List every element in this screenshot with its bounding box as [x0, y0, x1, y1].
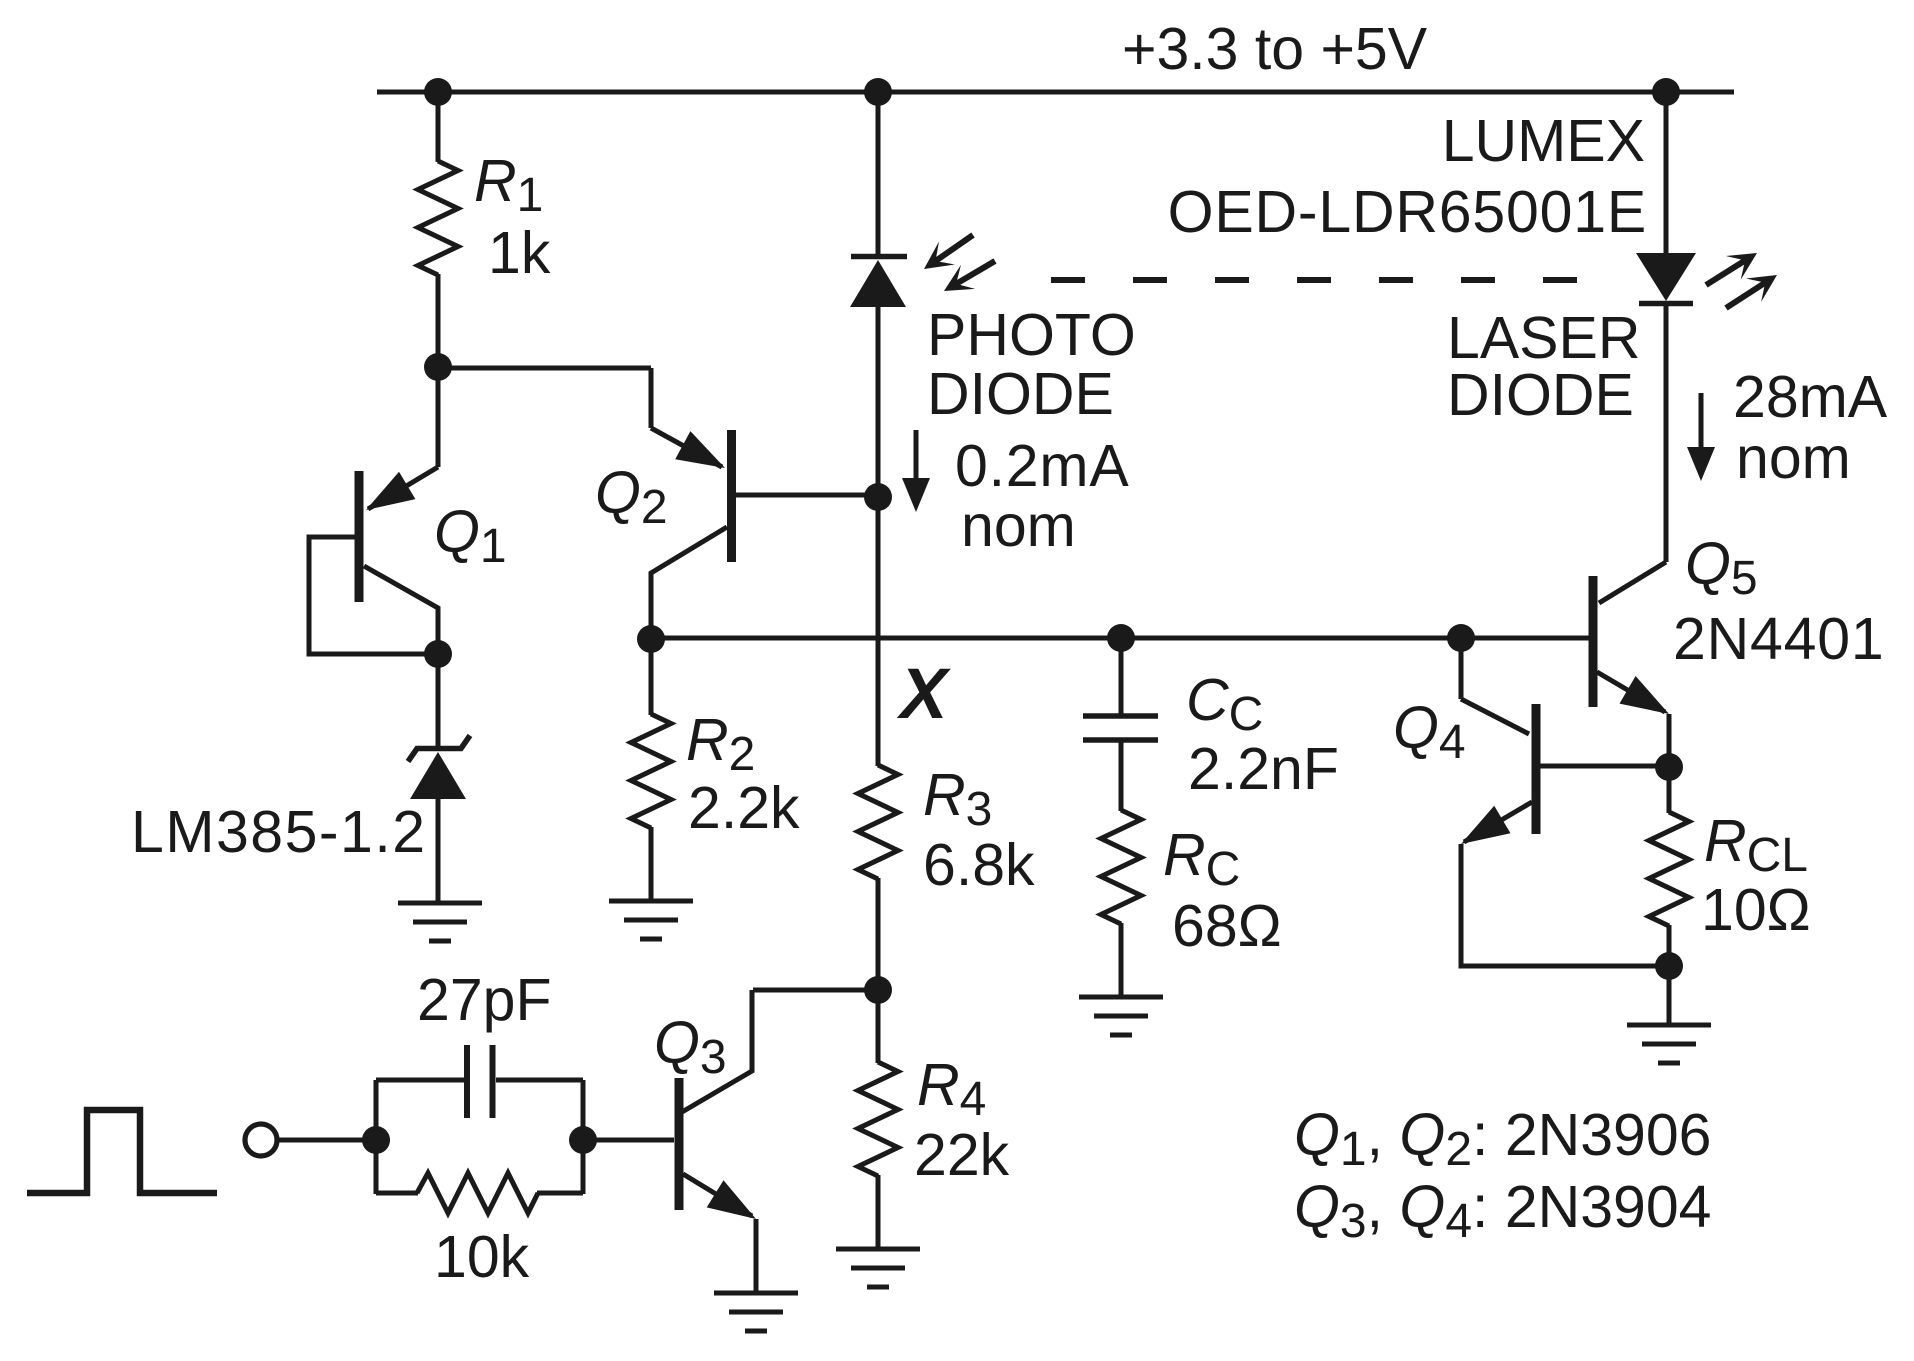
node dot Q2 collector on node X line — [637, 625, 665, 653]
node X wire — [651, 636, 1589, 641]
wire Cc to Rc — [1119, 740, 1124, 811]
wire R2 to ground — [649, 827, 654, 901]
wire box top left — [376, 1078, 464, 1083]
wire R4 to ground — [876, 1175, 881, 1249]
svg-text:RC: RC — [1163, 822, 1240, 896]
svg-text:Q1: Q1 — [434, 499, 507, 573]
node dot Q5 emitter/Q4 collector/RCL — [1655, 753, 1683, 781]
photodiode light arrow 1 — [924, 235, 973, 269]
svg-text:+3.3 to +5V: +3.3 to +5V — [1122, 16, 1428, 82]
label RCL — [1704, 808, 1808, 882]
transistor Q1 base loop wire — [309, 537, 438, 654]
svg-text:2.2nF: 2.2nF — [1188, 736, 1339, 802]
svg-text:R2: R2 — [686, 707, 755, 781]
junction dot Q2 base/photodiode — [864, 483, 892, 511]
wire node X to R2 — [649, 639, 654, 715]
transistor Q1 collector wire — [364, 566, 438, 655]
wire Q4 emitter to RCL bottom — [1461, 844, 1669, 966]
label LM385-1.2 — [131, 799, 427, 865]
svg-text:PHOTO: PHOTO — [927, 302, 1136, 368]
svg-text:R3: R3 — [923, 762, 992, 836]
label R1 — [474, 148, 543, 222]
node dot Q1 collector/zener — [424, 640, 452, 668]
svg-text:2.2k: 2.2k — [688, 775, 800, 841]
capacitor 27pF plates — [467, 1045, 493, 1118]
label Q5 — [1685, 531, 1758, 605]
transistor Q4 collector wire — [1540, 764, 1669, 769]
transistor Q2 emitter wire — [651, 368, 722, 467]
current arrow 28mA — [1687, 393, 1715, 481]
zener triangle — [410, 752, 466, 799]
wire photodiode down through node X — [876, 307, 881, 766]
ground below RCL — [1627, 1025, 1711, 1063]
label 68ohm — [1172, 893, 1282, 959]
transistor Q5 emitter wire — [1597, 672, 1665, 712]
label DIODE (laser) — [1447, 362, 1634, 428]
wire RCL to node — [1667, 925, 1672, 966]
svg-text:nom: nom — [961, 493, 1076, 559]
svg-text:1k: 1k — [488, 220, 551, 286]
label R2 — [686, 707, 755, 781]
label OED-LDR65001E — [1168, 179, 1647, 245]
svg-text:OED-LDR65001E: OED-LDR65001E — [1168, 179, 1647, 245]
svg-text:22k: 22k — [914, 1122, 1010, 1188]
transistor Q4 bar — [1532, 704, 1541, 834]
svg-text:DIODE: DIODE — [1447, 362, 1634, 428]
RC box right wire — [581, 1080, 586, 1194]
package dashed line — [1051, 277, 1581, 283]
label 2.2k — [688, 775, 800, 841]
label 22k — [914, 1122, 1010, 1188]
svg-text:10k: 10k — [434, 1224, 530, 1290]
input node dot left — [362, 1126, 390, 1154]
transistor Q5 emitter arrow — [1620, 676, 1670, 714]
ground below R2 — [609, 901, 693, 939]
transistor Q4 emitter arrow — [1461, 806, 1511, 844]
wire box top right — [496, 1078, 583, 1083]
resistor Rc — [1101, 810, 1141, 924]
wire input terminal to node — [279, 1138, 377, 1143]
transistor Q4 emitter wire — [1464, 802, 1532, 842]
junction dot rail/photodiode — [864, 78, 892, 106]
label Q3 — [654, 1010, 727, 1084]
label nom (laser) — [1736, 425, 1851, 491]
label Rc — [1163, 822, 1240, 896]
transistor Q2 bar — [727, 430, 736, 562]
photodiode light arrow 2 — [944, 261, 995, 291]
svg-text:LM385-1.2: LM385-1.2 — [131, 799, 427, 865]
svg-text:Q3, Q4: 2N3904: Q3, Q4: 2N3904 — [1294, 1174, 1712, 1248]
wire Q3 emitter to ground — [754, 1219, 759, 1293]
svg-text:0.2mA: 0.2mA — [955, 433, 1130, 499]
svg-text:Q5: Q5 — [1685, 531, 1758, 605]
laser light arrow 2 — [1726, 275, 1777, 308]
transistor Q2 emitter arrow — [675, 431, 725, 468]
label LASER — [1447, 305, 1640, 371]
wire zener to ground — [436, 797, 441, 903]
resistor R2 — [631, 714, 671, 828]
note Q1 Q2 2N3906 — [1294, 1102, 1712, 1176]
svg-text:27pF: 27pF — [417, 967, 551, 1033]
wire Rc to ground — [1119, 923, 1124, 997]
wire rail to laser diode — [1664, 92, 1669, 254]
transistor Q3 emitter arrow — [707, 1180, 756, 1219]
svg-text:6.8k: 6.8k — [923, 832, 1035, 898]
svg-text:10Ω: 10Ω — [1701, 877, 1811, 943]
laser diode triangle — [1636, 253, 1696, 301]
svg-text:68Ω: 68Ω — [1172, 893, 1282, 959]
transistor Q3 emitter wire — [683, 1174, 752, 1216]
label 10k — [434, 1224, 530, 1290]
laser diode bar — [1639, 301, 1693, 307]
wire node to Q3 collector — [753, 988, 878, 993]
label R3 — [923, 762, 992, 836]
wire node X to Cc — [1119, 638, 1124, 716]
svg-text:Q4: Q4 — [1393, 695, 1466, 769]
wire R3 to node R4 — [876, 878, 881, 991]
label R4 — [917, 1052, 986, 1126]
transistor Q2 base wire — [736, 493, 878, 498]
label 28mA — [1733, 364, 1888, 430]
wire R1 to node — [436, 274, 441, 368]
wire node to Q2 emitter — [438, 366, 651, 371]
svg-text:RCL: RCL — [1704, 808, 1808, 882]
label Cc — [1186, 667, 1263, 741]
transistor Q4 base wire — [1461, 638, 1529, 734]
svg-text:CC: CC — [1186, 667, 1263, 741]
wire box bottom left — [376, 1191, 418, 1196]
transistor Q2 collector wire — [651, 527, 727, 640]
input node dot right — [569, 1126, 597, 1154]
wire RCL top — [1667, 767, 1672, 813]
junction dot rail/laser diode — [1652, 78, 1680, 106]
transistor Q3 collector wire — [682, 990, 752, 1112]
label 1k — [488, 220, 551, 286]
laser light arrow 1 — [1706, 253, 1757, 285]
transistor Q1 emitter wire — [368, 367, 438, 509]
label 6.8k — [923, 832, 1035, 898]
svg-text:2N4401: 2N4401 — [1673, 606, 1884, 672]
input terminal circle — [245, 1124, 277, 1156]
RC box left wire — [374, 1080, 379, 1194]
svg-text:DIODE: DIODE — [927, 361, 1114, 427]
transistor Q5 base wire segment — [1461, 636, 1589, 641]
photodiode cathode bar — [851, 254, 907, 260]
power rail +3.3 to +5V wire — [377, 90, 1734, 95]
photodiode triangle — [850, 260, 906, 307]
svg-text:Q3: Q3 — [654, 1010, 727, 1084]
svg-text:R1: R1 — [474, 148, 543, 222]
node dot Cc on node X line — [1107, 624, 1135, 652]
capacitor Cc plates — [1083, 716, 1158, 740]
svg-text:Q1, Q2: 2N3906: Q1, Q2: 2N3906 — [1294, 1102, 1712, 1176]
resistor R3 — [858, 765, 898, 879]
wire box bottom right — [537, 1191, 583, 1196]
wire rail to photodiode — [876, 92, 881, 256]
ground below Rc — [1079, 997, 1163, 1035]
ground below R4 — [836, 1249, 920, 1287]
wire node to ground — [1667, 966, 1672, 1025]
ground below zener — [398, 903, 482, 941]
label X — [896, 655, 951, 734]
resistor R1 — [418, 161, 458, 275]
note Q3 Q4 2N3904 — [1294, 1174, 1712, 1248]
label nom (photo) — [961, 493, 1076, 559]
label 27pF — [417, 967, 551, 1033]
transistor Q3 bar — [675, 1078, 684, 1210]
ground below Q3 — [714, 1293, 798, 1331]
svg-text:R4: R4 — [917, 1052, 986, 1126]
transistor Q3 base wire — [583, 1138, 674, 1143]
label 10ohm — [1701, 877, 1811, 943]
node dot RCL/Q4 emitter return — [1655, 952, 1683, 980]
wire Q1 to zener — [436, 654, 441, 748]
input pulse waveform — [27, 1110, 217, 1193]
svg-text:LUMEX: LUMEX — [1442, 108, 1645, 174]
label DIODE (photo) — [927, 361, 1114, 427]
resistor R4 — [858, 1062, 898, 1176]
junction dot rail/R1 — [424, 78, 452, 106]
label 2.2nF — [1188, 736, 1339, 802]
node dot node X/Q4 base — [1447, 624, 1475, 652]
label 2N4401 — [1673, 606, 1884, 672]
svg-text:28mA: 28mA — [1733, 364, 1888, 430]
label 0.2mA — [955, 433, 1130, 499]
label Q2 — [595, 460, 668, 534]
svg-text:Q2: Q2 — [595, 460, 668, 534]
label Q1 — [434, 499, 507, 573]
svg-text:X: X — [896, 655, 951, 734]
current arrow 0.2mA — [902, 430, 930, 512]
wire node to R4 — [876, 990, 881, 1063]
transistor Q1 emitter arrow — [366, 472, 415, 510]
label +3.3 to +5V — [1122, 16, 1428, 82]
wire Q5 emitter to RCL node — [1667, 714, 1672, 768]
zener cathode bar — [408, 736, 470, 762]
label LUMEX — [1442, 108, 1645, 174]
transistor Q1 bar — [355, 471, 364, 602]
transistor Q5 bar — [1589, 576, 1598, 707]
resistor 10k — [417, 1173, 538, 1213]
svg-text:nom: nom — [1736, 425, 1851, 491]
node dot R3/R4/Q3 — [864, 976, 892, 1004]
resistor RCL — [1649, 812, 1689, 926]
node dot R1/Q1/Q2 — [424, 353, 452, 381]
wire rail to R1 — [436, 92, 441, 162]
label Q4 — [1393, 695, 1466, 769]
wire laser diode to Q5 — [1599, 306, 1666, 603]
label PHOTO — [927, 302, 1136, 368]
